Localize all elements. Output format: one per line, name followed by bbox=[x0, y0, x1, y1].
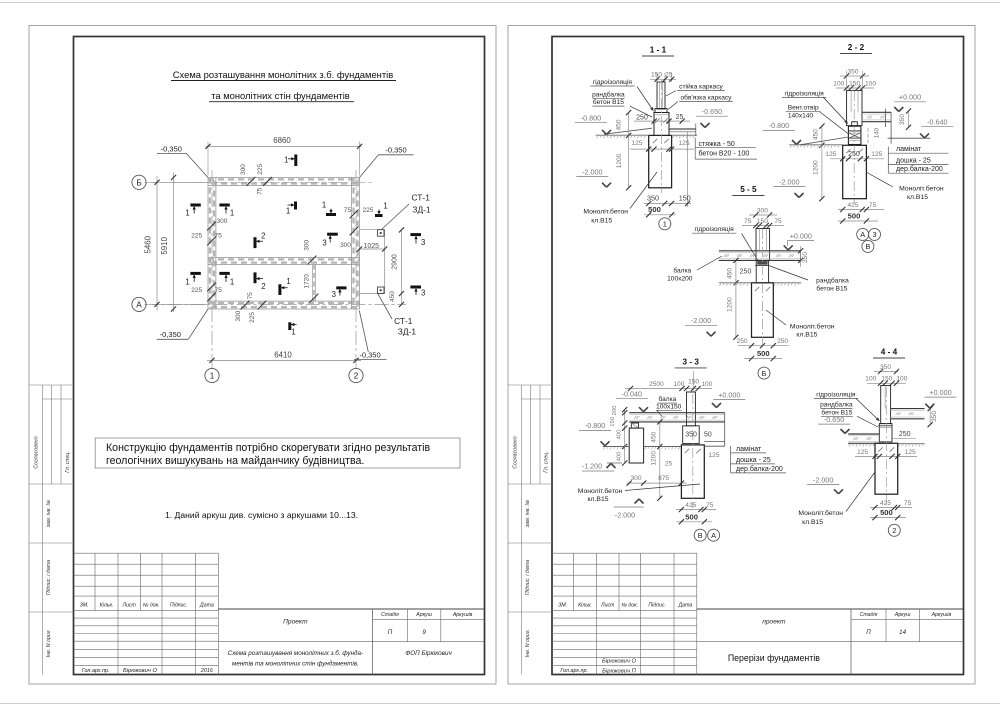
axis line Б bbox=[145, 181, 373, 183]
svg-text:875: 875 bbox=[658, 475, 669, 482]
svg-text:500: 500 bbox=[757, 349, 770, 358]
svg-text:ЗМ.: ЗМ. bbox=[80, 602, 89, 608]
svg-text:125: 125 bbox=[708, 452, 719, 459]
axis circle Б bbox=[132, 175, 146, 189]
svg-text:А: А bbox=[136, 300, 142, 309]
svg-text:4 - 4: 4 - 4 bbox=[881, 348, 898, 357]
svg-text:Моноліт.бетон: Моноліт.бетон bbox=[578, 487, 623, 495]
svg-text:-2.000: -2.000 bbox=[691, 316, 711, 325]
svg-text:300: 300 bbox=[340, 242, 351, 249]
svg-text:Кільк.: Кільк. bbox=[578, 602, 592, 608]
svg-text:400: 400 bbox=[616, 429, 622, 440]
svg-text:Б: Б bbox=[762, 369, 767, 378]
svg-text:100: 100 bbox=[833, 81, 844, 88]
svg-text:3: 3 bbox=[332, 290, 336, 299]
svg-text:3: 3 bbox=[872, 230, 876, 239]
svg-text:225: 225 bbox=[191, 233, 202, 240]
svg-text:300: 300 bbox=[240, 164, 247, 175]
1-1 axis circle 1 bbox=[659, 218, 671, 230]
svg-text:рандбалка: рандбалка bbox=[820, 401, 853, 409]
section cut mark 1 lower middle bbox=[278, 284, 281, 295]
svg-text:ЗМ.: ЗМ. bbox=[558, 602, 567, 608]
3-3 post bbox=[687, 392, 696, 426]
dimension 5910 bbox=[173, 173, 175, 313]
svg-text:-0.800: -0.800 bbox=[769, 121, 789, 130]
3-3 left column bbox=[629, 428, 643, 463]
svg-text:+0.000: +0.000 bbox=[790, 231, 812, 240]
svg-text:300: 300 bbox=[235, 310, 242, 321]
dimension 5460 bbox=[152, 181, 208, 183]
svg-text:ЗД-1: ЗД-1 bbox=[412, 204, 431, 214]
svg-text:1200: 1200 bbox=[813, 160, 820, 175]
svg-text:обв'язка каркасу: обв'язка каркасу bbox=[681, 94, 733, 102]
5-5 floor band bbox=[719, 250, 801, 252]
svg-text:Гл. спец.: Гл. спец. bbox=[65, 451, 71, 473]
3-3 top dims 2500 100 150 100 bbox=[625, 388, 712, 390]
svg-text:-0,350: -0,350 bbox=[160, 330, 181, 339]
1-1 pier bbox=[654, 113, 669, 136]
svg-text:125: 125 bbox=[905, 449, 916, 456]
svg-text:-2.000: -2.000 bbox=[779, 177, 799, 186]
svg-text:75: 75 bbox=[869, 202, 877, 209]
side strip rows bbox=[29, 384, 74, 386]
svg-text:дер.балка-200: дер.балка-200 bbox=[896, 165, 943, 173]
svg-text:400: 400 bbox=[616, 451, 622, 462]
svg-text:1: 1 bbox=[230, 278, 234, 287]
svg-text:25: 25 bbox=[665, 72, 673, 79]
svg-text:рандбалка: рандбалка bbox=[816, 277, 849, 285]
svg-text:250: 250 bbox=[737, 338, 748, 345]
axis line 2 bbox=[355, 170, 357, 368]
svg-text:ламінат: ламінат bbox=[896, 145, 922, 153]
svg-text:2: 2 bbox=[892, 526, 896, 535]
section cut mark 3 far right upper bbox=[410, 233, 421, 236]
svg-text:125: 125 bbox=[871, 151, 882, 158]
svg-text:Аркушів: Аркушів bbox=[931, 612, 952, 618]
1-1 dim 350 150 bbox=[687, 132, 689, 207]
title block main box bbox=[218, 608, 484, 610]
4-4 pier bbox=[879, 424, 892, 442]
svg-text:1: 1 bbox=[210, 372, 215, 381]
svg-text:Б: Б bbox=[136, 178, 141, 187]
svg-text:ЗД-1: ЗД-1 bbox=[398, 327, 417, 337]
svg-text:450: 450 bbox=[813, 129, 820, 140]
svg-text:1200: 1200 bbox=[726, 297, 733, 312]
svg-text:П: П bbox=[866, 629, 871, 636]
svg-text:100: 100 bbox=[673, 381, 684, 388]
2-2 vent box bbox=[848, 137, 861, 139]
axis circle 1 bbox=[205, 368, 219, 382]
section cut mark 1 top inside bbox=[294, 202, 297, 210]
svg-text:350: 350 bbox=[647, 194, 659, 203]
inner partition wall bbox=[312, 265, 314, 302]
svg-text:100: 100 bbox=[865, 376, 876, 383]
svg-text:В: В bbox=[865, 242, 870, 251]
svg-text:125: 125 bbox=[825, 151, 836, 158]
svg-text:зам. інв. №: зам. інв. № bbox=[525, 500, 531, 529]
section cut mark 1 bottom outside bbox=[288, 322, 291, 330]
2-2 tie band bbox=[852, 122, 858, 126]
svg-text:25: 25 bbox=[676, 114, 684, 121]
svg-text:Моноліт.бетон: Моноліт.бетон bbox=[798, 509, 843, 517]
svg-text:кл.В15: кл.В15 bbox=[907, 194, 928, 201]
svg-text:стійка каркасу: стійка каркасу bbox=[679, 83, 723, 91]
svg-text:Стадія: Стадія bbox=[381, 612, 399, 618]
svg-text:Бірюкович О: Бірюкович О bbox=[602, 659, 636, 665]
svg-text:А: А bbox=[860, 230, 865, 239]
svg-text:1: 1 bbox=[286, 207, 290, 216]
svg-text:1: 1 bbox=[286, 277, 290, 286]
1-1 ground left bbox=[596, 134, 649, 136]
svg-text:СТ-1: СТ-1 bbox=[394, 316, 413, 326]
5-5 footing bbox=[752, 283, 774, 338]
svg-text:6410: 6410 bbox=[274, 351, 292, 360]
3-3 left dims 200 150 400 400 bbox=[624, 410, 626, 463]
5-5 post bbox=[756, 229, 770, 261]
section cut mark 1 right wall bbox=[375, 214, 383, 217]
stage columns bbox=[885, 609, 887, 642]
svg-text:250: 250 bbox=[636, 114, 648, 121]
svg-text:450: 450 bbox=[726, 268, 733, 279]
side strip columns bbox=[42, 385, 44, 675]
svg-text:1: 1 bbox=[284, 155, 288, 164]
wall middle bbox=[208, 257, 360, 259]
side strip rows bbox=[508, 384, 552, 386]
svg-text:9: 9 bbox=[422, 629, 426, 636]
svg-text:500: 500 bbox=[648, 205, 661, 214]
svg-text:дошка - 25: дошка - 25 bbox=[896, 157, 931, 164]
svg-text:225: 225 bbox=[257, 163, 264, 174]
svg-text:Підпис.: Підпис. bbox=[648, 602, 666, 608]
svg-text:Схема розташування монолітних: Схема розташування монолітних з.б. фунда… bbox=[228, 649, 363, 657]
axis circle 2 bbox=[349, 368, 363, 382]
svg-text:3: 3 bbox=[322, 238, 326, 247]
title block left column rows bbox=[552, 552, 697, 554]
svg-text:2500: 2500 bbox=[649, 381, 664, 388]
svg-text:Гол.арх.пр.: Гол.арх.пр. bbox=[82, 668, 110, 674]
svg-text:1025: 1025 bbox=[364, 243, 380, 250]
svg-text:Інв. N ориг.: Інв. N ориг. bbox=[525, 629, 531, 657]
svg-text:2: 2 bbox=[354, 372, 359, 381]
section cut mark 1 top outside bbox=[294, 155, 297, 167]
side strip columns bbox=[521, 385, 523, 675]
svg-text:450: 450 bbox=[616, 119, 623, 130]
svg-text:500: 500 bbox=[848, 212, 861, 221]
svg-text:350: 350 bbox=[899, 114, 906, 125]
2-2 footing bbox=[843, 145, 867, 198]
svg-text:350: 350 bbox=[931, 411, 938, 422]
svg-text:Конструкцію фундаментів потріб: Конструкцію фундаментів потрібно скорегу… bbox=[106, 442, 430, 454]
1-1 top dim 150 25 bbox=[656, 73, 658, 82]
svg-text:250: 250 bbox=[848, 151, 860, 158]
svg-text:450: 450 bbox=[389, 291, 396, 302]
svg-text:Моноліт.бетон: Моноліт.бетон bbox=[583, 208, 628, 216]
svg-text:125: 125 bbox=[631, 140, 642, 147]
svg-text:Согласовано: Согласовано bbox=[513, 436, 519, 468]
svg-text:балка: балка bbox=[658, 395, 676, 403]
section cut mark 3 lower right bbox=[336, 286, 346, 289]
svg-text:1: 1 bbox=[230, 208, 234, 217]
svg-text:225: 225 bbox=[249, 312, 256, 323]
sheet inner frame bbox=[552, 37, 964, 675]
svg-text:1: 1 bbox=[322, 201, 326, 210]
3-3 dim 500 bbox=[676, 521, 712, 523]
svg-text:100х150: 100х150 bbox=[656, 403, 682, 410]
svg-text:-0.040: -0.040 bbox=[622, 390, 642, 399]
5-5 axis circle B bbox=[758, 367, 770, 379]
svg-text:350: 350 bbox=[685, 431, 697, 438]
title block left column verticals bbox=[117, 553, 119, 674]
svg-text:та монолітних стін фундаментів: та монолітних стін фундаментів bbox=[211, 90, 350, 101]
svg-text:гідроізоляція: гідроізоляція bbox=[816, 390, 856, 398]
svg-text:100: 100 bbox=[865, 81, 876, 88]
svg-text:5910: 5910 bbox=[160, 236, 169, 254]
svg-text:200: 200 bbox=[612, 405, 618, 416]
2-2 floor labels bbox=[887, 147, 889, 174]
svg-text:П: П bbox=[388, 629, 393, 636]
svg-text:-0.650: -0.650 bbox=[702, 107, 722, 116]
svg-text:А: А bbox=[711, 531, 716, 540]
3-3 pier bbox=[683, 426, 700, 444]
svg-text:2016: 2016 bbox=[200, 668, 213, 674]
svg-text:дошка - 25: дошка - 25 bbox=[736, 457, 771, 464]
svg-text:Перерізи фундаментів: Перерізи фундаментів bbox=[728, 653, 820, 663]
5-5 ground bbox=[719, 282, 752, 284]
label CT-1 ZD-1 bottom bbox=[378, 294, 392, 319]
3-3 left pier cap bbox=[631, 423, 638, 428]
svg-text:Согласовано: Согласовано bbox=[34, 436, 40, 468]
svg-text:350: 350 bbox=[847, 68, 858, 75]
svg-text:75: 75 bbox=[247, 292, 254, 300]
2-2 dim 450 bbox=[821, 126, 823, 145]
2-2 wall end right bbox=[885, 109, 887, 127]
dimension 1025 bbox=[360, 248, 385, 250]
svg-text:5 - 5: 5 - 5 bbox=[740, 185, 757, 194]
1-1 slab right bbox=[669, 128, 696, 130]
stage columns bbox=[407, 609, 409, 642]
3-3 dim 425 75 bbox=[676, 509, 716, 511]
svg-text:100х200: 100х200 bbox=[667, 276, 693, 283]
svg-text:140: 140 bbox=[874, 127, 881, 138]
1-1 label stiazhka 50 bbox=[694, 138, 696, 159]
svg-text:225: 225 bbox=[363, 207, 374, 214]
section cut mark 2 lower room bbox=[254, 272, 257, 283]
svg-text:-0,350: -0,350 bbox=[385, 146, 406, 155]
svg-text:бетон В15: бетон В15 bbox=[816, 285, 847, 293]
4-4 post bbox=[881, 386, 891, 424]
svg-text:1200: 1200 bbox=[650, 451, 657, 466]
svg-text:300: 300 bbox=[630, 475, 641, 482]
3-3 dim 450 1200 bbox=[659, 422, 661, 447]
2-2 dims 125 250 125 bbox=[830, 158, 884, 160]
4-4 axis circle 2 bbox=[888, 524, 900, 536]
svg-text:2900: 2900 bbox=[392, 254, 399, 270]
4-4 floor band left lower bbox=[848, 433, 879, 435]
3-3 floor band bbox=[629, 412, 725, 414]
svg-text:Гол.арх.пр.: Гол.арх.пр. bbox=[560, 668, 588, 674]
svg-text:1: 1 bbox=[185, 278, 189, 287]
svg-text:Гл. спец.: Гл. спец. bbox=[544, 451, 550, 473]
svg-text:1200: 1200 bbox=[616, 153, 623, 168]
svg-text:-0,350: -0,350 bbox=[359, 350, 380, 359]
wall bottom bbox=[208, 300, 360, 302]
svg-text:14: 14 bbox=[899, 629, 906, 636]
svg-text:250: 250 bbox=[740, 269, 752, 276]
title block left column rows bbox=[74, 552, 219, 554]
svg-text:дер.балка-200: дер.балка-200 bbox=[736, 465, 783, 473]
svg-text:рандбалка: рандбалка bbox=[592, 90, 625, 98]
wall right bbox=[351, 178, 353, 310]
svg-text:100: 100 bbox=[701, 381, 712, 388]
svg-text:кл.В15: кл.В15 bbox=[796, 331, 817, 338]
svg-text:500: 500 bbox=[880, 508, 893, 517]
section cut mark 1 left outside lower bbox=[190, 272, 200, 275]
svg-text:140х140: 140х140 bbox=[788, 113, 814, 120]
svg-text:150: 150 bbox=[881, 376, 892, 383]
1-1 footing bbox=[649, 135, 672, 187]
notes box bbox=[95, 438, 460, 468]
axis line 1 bbox=[211, 170, 213, 368]
svg-text:кл.В15: кл.В15 bbox=[591, 218, 612, 225]
svg-text:Лист: Лист bbox=[122, 602, 137, 608]
1-1 dims 125 125 bbox=[630, 148, 694, 150]
svg-text:Аркуш: Аркуш bbox=[415, 612, 432, 618]
svg-text:75: 75 bbox=[257, 187, 264, 195]
5-5 top dims 300 / 75 150 75 bbox=[749, 214, 777, 216]
svg-text:75: 75 bbox=[215, 233, 223, 240]
svg-text:-0.640: -0.640 bbox=[927, 118, 947, 127]
svg-text:-0.800: -0.800 bbox=[585, 421, 605, 430]
5-5 dim 450 pier bbox=[735, 260, 737, 282]
svg-text:Моноліт.бетон: Моноліт.бетон bbox=[790, 322, 835, 330]
2-2 post bbox=[847, 90, 862, 125]
svg-text:Бірюкович О: Бірюкович О bbox=[123, 668, 157, 674]
svg-text:+0.000: +0.000 bbox=[899, 93, 921, 102]
svg-text:геологічних вишукувань на майд: геологічних вишукувань на майданчику буд… bbox=[106, 455, 364, 467]
svg-text:2 - 2: 2 - 2 bbox=[848, 43, 865, 52]
svg-text:-0.650: -0.650 bbox=[824, 415, 844, 424]
sheet outer edge bbox=[508, 26, 975, 685]
label CT-1 ZD-1 top bbox=[381, 204, 409, 230]
svg-text:450: 450 bbox=[650, 431, 657, 442]
svg-text:250: 250 bbox=[777, 338, 788, 345]
3-3 ground bbox=[603, 446, 630, 448]
svg-text:150: 150 bbox=[651, 72, 662, 79]
svg-text:-2.000: -2.000 bbox=[813, 475, 833, 484]
svg-text:-2.000: -2.000 bbox=[615, 511, 635, 520]
svg-text:гідроізоляція: гідроізоляція bbox=[694, 225, 734, 233]
svg-text:1720: 1720 bbox=[303, 274, 310, 289]
svg-text:425: 425 bbox=[880, 500, 891, 507]
svg-text:В: В bbox=[698, 531, 703, 540]
sheet outer edge bbox=[29, 26, 496, 685]
svg-text:+0.000: +0.000 bbox=[929, 388, 951, 397]
right extension bbox=[360, 229, 385, 231]
svg-text:3: 3 bbox=[421, 238, 425, 247]
section cut mark 2 upper room bbox=[254, 237, 257, 248]
svg-text:Інв. N ориг.: Інв. N ориг. bbox=[46, 629, 52, 657]
svg-text:кл.В15: кл.В15 bbox=[588, 496, 609, 503]
svg-text:25: 25 bbox=[665, 461, 673, 468]
dimension 6860 bbox=[207, 142, 209, 176]
svg-text:-0,350: -0,350 bbox=[161, 145, 182, 154]
sheet inner frame bbox=[74, 37, 485, 675]
svg-text:Аркуш: Аркуш bbox=[894, 612, 911, 618]
svg-text:300: 300 bbox=[216, 218, 227, 225]
svg-text:425: 425 bbox=[847, 202, 858, 209]
title block left column verticals bbox=[596, 553, 598, 674]
svg-text:бетон В20 - 100: бетон В20 - 100 bbox=[699, 150, 750, 158]
svg-text:1: 1 bbox=[663, 220, 667, 229]
svg-text:350: 350 bbox=[880, 364, 891, 371]
svg-text:гідроізоляція: гідроізоляція bbox=[784, 89, 824, 97]
svg-text:75: 75 bbox=[344, 207, 352, 214]
svg-text:СТ-1: СТ-1 bbox=[412, 192, 431, 202]
1-1 frame post bbox=[657, 82, 665, 109]
page top edge line bbox=[0, 2, 1000, 4]
svg-text:125: 125 bbox=[678, 140, 689, 147]
svg-text:Підпис. і дата: Підпис. і дата bbox=[46, 560, 52, 595]
wall left bbox=[207, 178, 209, 310]
1-1 dim 500 bbox=[644, 214, 676, 216]
2-2 dim 140 bbox=[867, 128, 869, 143]
svg-text:500: 500 bbox=[685, 512, 698, 521]
axis line А bbox=[145, 303, 407, 305]
2-2 floor band right bbox=[862, 111, 891, 113]
svg-text:350: 350 bbox=[802, 252, 809, 263]
5-5 dim 1200 bbox=[735, 283, 737, 338]
4-4 dims 125 125 bbox=[855, 455, 917, 457]
section cut mark 3 far right lower bbox=[410, 286, 421, 289]
svg-text:№ док.: № док. bbox=[143, 602, 160, 608]
4-4 dim 425 75 bbox=[870, 507, 912, 509]
svg-text:Проект: Проект bbox=[283, 619, 308, 626]
svg-text:гідроізоляція: гідроізоляція bbox=[593, 78, 633, 86]
5-5 dim 500 bbox=[744, 358, 782, 360]
svg-text:1. Даний аркуш див. сумісно з: 1. Даний аркуш див. сумісно з аркушами 1… bbox=[165, 510, 358, 520]
svg-text:Вент.отвір: Вент.отвір bbox=[788, 104, 819, 112]
3-3 dims 300 875 bbox=[627, 482, 686, 484]
2-2 top dims 350 / 100 150 100 bbox=[840, 75, 869, 77]
svg-text:+0.000: +0.000 bbox=[718, 390, 740, 399]
2-2 dim 500 bbox=[838, 220, 878, 222]
3-3 lower floor right bbox=[704, 441, 724, 443]
svg-text:Аркушів: Аркушів bbox=[452, 612, 473, 618]
1-1 dim 250 25 bbox=[634, 120, 690, 122]
svg-text:-0.800: -0.800 bbox=[581, 114, 601, 123]
5-5 pier bbox=[756, 260, 768, 282]
svg-text:1: 1 bbox=[185, 208, 189, 217]
2-2 ground bbox=[789, 144, 842, 146]
svg-text:425: 425 bbox=[685, 502, 696, 509]
4-4 dim 500 bbox=[870, 517, 906, 519]
svg-text:75: 75 bbox=[744, 218, 752, 225]
4-4 ground bbox=[848, 443, 875, 445]
svg-text:2: 2 bbox=[261, 231, 265, 240]
svg-text:300: 300 bbox=[757, 207, 768, 214]
svg-text:300: 300 bbox=[303, 239, 310, 250]
svg-text:Бірюкович П: Бірюкович П bbox=[602, 668, 636, 674]
4-4 footing bbox=[875, 443, 898, 494]
dimension 6410 bbox=[207, 359, 361, 361]
svg-text:50: 50 bbox=[704, 431, 712, 438]
page bottom edge line bbox=[0, 703, 1000, 705]
svg-text:5460: 5460 bbox=[144, 235, 153, 253]
svg-text:ментів та монолітних стін фунд: ментів та монолітних стін фундаментів. bbox=[232, 660, 359, 668]
svg-text:Лист: Лист bbox=[600, 602, 615, 608]
svg-text:Моноліт.бетон: Моноліт.бетон bbox=[899, 184, 944, 192]
2-2 dim 350 vertical bbox=[908, 111, 910, 127]
